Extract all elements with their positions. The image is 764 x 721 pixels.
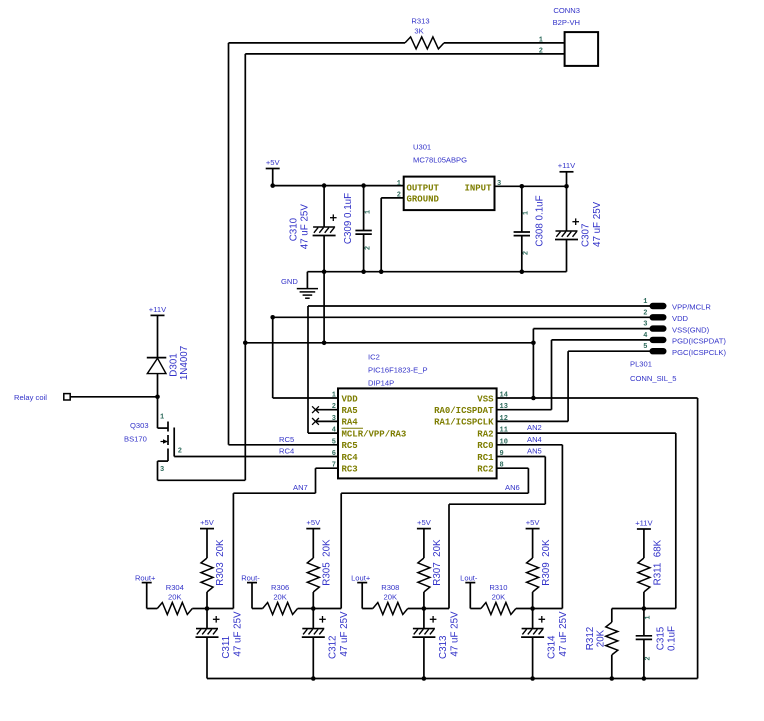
wire PGC to PL301 pin5 (568, 350, 650, 352)
svg-text:R303 20K: R303 20K (215, 539, 226, 586)
wire AN2 arm to R311/R312 (612, 608, 676, 610)
resistor R307 20K (418, 558, 430, 592)
wire Q303 drain lead (158, 427, 169, 429)
svg-text:47 uF 25V: 47 uF 25V (339, 611, 350, 657)
capacitor C314 47uF 25V (521, 616, 545, 637)
wire CONN3 pin2 down (GND net) (244, 54, 246, 343)
svg-text:AN5: AN5 (527, 447, 542, 456)
svg-text:4: 4 (643, 332, 647, 340)
svg-text:BS170: BS170 (124, 435, 147, 444)
pad PL301 pin 3 (650, 326, 666, 331)
terminal Relay coil (64, 394, 70, 400)
wire R304 to junction (192, 608, 207, 610)
svg-text:2: 2 (643, 309, 647, 317)
wire U301 GROUND down (380, 198, 382, 272)
wire R309 to junction (532, 592, 534, 609)
wire C309 top stub (363, 186, 365, 231)
svg-text:RC5: RC5 (279, 435, 294, 444)
wire R303 to junction (206, 592, 208, 609)
svg-text:Lout+: Lout+ (351, 573, 371, 582)
capacitor C313 47uF 25V (412, 616, 436, 637)
svg-text:0.1uF: 0.1uF (666, 626, 677, 651)
junction C310 top (322, 183, 327, 188)
power +5V channel Lout+ (417, 528, 431, 530)
wire +5V to R303 (206, 529, 208, 558)
pad PL301 pin 5 (650, 349, 666, 354)
wire +5V to R305 (312, 529, 314, 558)
wire +5V to R309 (532, 529, 534, 558)
svg-text:1: 1 (160, 414, 164, 422)
wire relay coil to node (70, 396, 157, 398)
wire MCLR vertical (307, 306, 309, 433)
svg-text:RA5: RA5 (342, 406, 358, 416)
wire AN6 to channel 2 junction (313, 608, 341, 610)
pad PL301 pin 4 (650, 337, 666, 342)
wire R307 to junction (423, 592, 425, 609)
svg-text:Q303: Q303 (130, 421, 149, 430)
wire junction to C312 (312, 609, 314, 629)
wire AN5 to channel 3 junction (424, 608, 449, 610)
wire AN2 vertical (675, 433, 677, 608)
wire VPP/MCLR to PL301 pin1 (308, 305, 650, 307)
svg-text:IC2: IC2 (368, 353, 380, 362)
svg-text:RA0/ICSPDAT: RA0/ICSPDAT (434, 406, 494, 416)
junction GND stub (322, 341, 327, 346)
power +11V channel 5 (637, 528, 651, 530)
junction C309 bottom (361, 269, 366, 274)
svg-text:DIP14P: DIP14P (368, 379, 394, 388)
svg-text:MCLR/VPP/RA3: MCLR/VPP/RA3 (342, 429, 407, 439)
terminal Lout+ (357, 582, 367, 584)
svg-text:+5V: +5V (266, 158, 281, 167)
resistor R309 20K (527, 558, 539, 592)
svg-text:C312: C312 (327, 636, 338, 659)
wire MCLR to IC2 pin4 (308, 432, 338, 434)
svg-text:RC4: RC4 (342, 453, 359, 463)
wire IC2 pin13 to PGD (497, 409, 552, 411)
junction bottom rail x=611.8 (610, 676, 615, 681)
terminal Rout- (247, 582, 257, 584)
terminal Lout- (465, 582, 475, 584)
wire RC4 gate to IC2 pin6 (174, 456, 338, 458)
capacitor C312 47uF 25V (302, 616, 326, 637)
wire Rout- to R306 (252, 608, 263, 610)
wire D301 anode to Q303 drain (157, 374, 159, 429)
wire AN7 down from pin7 (315, 468, 317, 493)
wire R312 to bottom rail (611, 655, 613, 679)
svg-text:VPP/MCLR: VPP/MCLR (672, 303, 711, 312)
junction C309 top (361, 183, 366, 188)
wire AN4 from IC2 pin10 (497, 444, 563, 446)
svg-text:14: 14 (500, 392, 508, 400)
svg-text:2: 2 (644, 656, 652, 660)
svg-text:+5V: +5V (306, 518, 321, 527)
svg-text:INPUT: INPUT (464, 184, 492, 194)
wire C311 to bottom rail (206, 637, 208, 678)
svg-text:C315: C315 (656, 626, 667, 650)
junction GND at CONN3 pin2 net (243, 341, 248, 346)
overline MCLR (342, 427, 364, 429)
svg-text:R304: R304 (166, 583, 184, 592)
svg-text:RC0: RC0 (477, 441, 493, 451)
svg-text:RC4: RC4 (279, 447, 294, 456)
wire junction to C311 (206, 609, 208, 629)
svg-text:C309 0.1uF: C309 0.1uF (343, 193, 354, 244)
wire VSS vertical (532, 329, 534, 398)
wire AN5 horizontal (449, 503, 545, 505)
svg-text:PIC16F1823-E_P: PIC16F1823-E_P (368, 366, 428, 375)
power +5V regulator output (266, 168, 280, 170)
junction +11V INPUT (564, 184, 569, 189)
svg-text:RC3: RC3 (342, 465, 358, 475)
svg-text:47 uF 25V: 47 uF 25V (449, 611, 460, 657)
wire IC2 pin7 stub (316, 467, 339, 469)
wire VDD to IC2 pin1 (273, 397, 338, 399)
wire R306 to junction (298, 608, 314, 610)
wire VSS down to bottom rail (697, 398, 699, 679)
wire IC2 pin12 to PGC (497, 420, 568, 422)
power +11V input (560, 171, 574, 173)
wire +5V to R307 (423, 529, 425, 558)
svg-text:C310: C310 (289, 217, 300, 241)
wire C307 bottom stub (566, 240, 568, 272)
svg-text:RC2: RC2 (477, 465, 493, 475)
capacitor C310 47uF 25V (313, 214, 337, 235)
wire Rout+ to R304 (147, 608, 158, 610)
wire VDD to PL301 pin2 (273, 316, 650, 318)
resistor R312 20K (606, 622, 618, 655)
svg-text:+5V: +5V (417, 518, 432, 527)
wire channel 1 junction to AN7 (207, 608, 233, 610)
svg-text:3: 3 (160, 466, 164, 474)
svg-text:R309 20K: R309 20K (541, 539, 552, 586)
svg-text:Rout-: Rout- (241, 573, 260, 582)
power +5V channel Rout- (306, 528, 320, 530)
wire AN6 vertical lower (340, 493, 342, 608)
resistor R305 20K (307, 558, 319, 592)
wire C309 bottom stub (363, 234, 365, 272)
wire VDD vertical (272, 317, 274, 398)
wire CONN3 pin1 to RC5 vertical (228, 43, 230, 445)
svg-text:B2P-VH: B2P-VH (553, 18, 580, 27)
svg-text:C313: C313 (438, 635, 449, 659)
svg-text:PL301: PL301 (630, 360, 652, 369)
svg-text:3: 3 (643, 321, 647, 329)
svg-text:GND: GND (281, 277, 298, 286)
svg-text:1: 1 (397, 180, 401, 188)
svg-text:1: 1 (643, 298, 647, 306)
junction bottom rail x=643.9 (642, 676, 647, 681)
svg-text:AN6: AN6 (505, 483, 520, 492)
wire GND symbol stem (306, 272, 308, 289)
no-connect X pin2 (312, 406, 319, 413)
svg-text:3K: 3K (414, 27, 423, 36)
wire Q303 source to GND net (158, 479, 246, 481)
svg-text:47 uF 25V: 47 uF 25V (558, 611, 569, 657)
power +5V channel Lout- (526, 528, 540, 530)
pad PL301 pin 2 (650, 315, 666, 320)
svg-text:13: 13 (500, 403, 508, 411)
wire AN7 vertical to channel 1 (232, 493, 234, 608)
wire Q303 source lead (158, 460, 169, 462)
wire AN2 from IC2 pin11 (497, 432, 676, 434)
junction VDD tap (270, 315, 275, 320)
wire +11V to R311 (643, 529, 645, 558)
svg-text:RA2: RA2 (477, 429, 493, 439)
svg-text:1: 1 (539, 37, 543, 45)
svg-text:12: 12 (500, 415, 508, 423)
wire C310 top stub (323, 186, 325, 227)
wire +5V rail to U301 OUTPUT (273, 185, 404, 187)
svg-text:1: 1 (332, 392, 336, 400)
wire +11V stem to C307 (566, 172, 568, 231)
wire IC2 pin2 stub (316, 409, 339, 411)
svg-text:R308: R308 (381, 583, 399, 592)
svg-text:5: 5 (643, 343, 647, 351)
resistor R308 20K (373, 603, 408, 615)
pad PL301 pin 1 (650, 303, 666, 308)
terminal Rout+ (142, 582, 152, 584)
svg-text:1: 1 (364, 210, 372, 214)
svg-text:20K: 20K (492, 593, 506, 602)
junction C308 top (520, 184, 525, 189)
junction node Rout- (311, 606, 316, 611)
wire R310 to junction (516, 608, 533, 610)
svg-text:2: 2 (539, 48, 543, 56)
wire AN6 vertical upper (527, 468, 529, 493)
svg-text:RC5: RC5 (342, 441, 358, 451)
junction bottom rail x=313.3 (311, 676, 316, 681)
wire Rout+ down (146, 583, 148, 609)
capacitor C311 47uF 25V (196, 616, 220, 637)
wire AN5 vertical upper (544, 457, 546, 505)
wire Lout- down (469, 583, 471, 609)
wire IC2 pin3 stub (316, 420, 339, 422)
wire AN5 vertical lower (448, 504, 450, 608)
wire Rout- down (251, 583, 253, 609)
svg-text:MC78L05ABPG: MC78L05ABPG (413, 156, 467, 165)
diode D301 1N4007 (147, 357, 167, 359)
wire CONN3 pin2 (245, 53, 564, 55)
wire PGD to PL301 pin4 (552, 339, 651, 341)
wire C314 to bottom rail (532, 637, 534, 678)
svg-text:R305 20K: R305 20K (321, 539, 332, 586)
svg-text:20K: 20K (384, 593, 398, 602)
svg-text:Lout-: Lout- (460, 573, 478, 582)
svg-text:C314: C314 (547, 635, 558, 659)
wire +11V to D301 cathode (157, 315, 159, 357)
capacitor C307 47uF 25V (555, 218, 579, 239)
wire C313 to bottom rail (423, 637, 425, 678)
svg-text:+5V: +5V (526, 518, 541, 527)
resistor R303 20K (201, 558, 213, 592)
wire R313 to CONN3 pin1 (444, 42, 565, 44)
junction node Lout- (530, 606, 535, 611)
wire Lout+ down (361, 583, 363, 609)
wire junction to R312 (611, 609, 613, 623)
svg-text:+5V: +5V (200, 518, 215, 527)
wire junction to C315 (643, 609, 645, 636)
wire +5V stem (272, 169, 274, 186)
svg-text:47 uF 25V: 47 uF 25V (300, 204, 311, 250)
wire IC2 pin14 VSS to right (497, 397, 698, 399)
wire C315 to bottom rail (643, 639, 645, 678)
wire AN7 horizontal (233, 492, 315, 494)
svg-text:20K: 20K (168, 593, 182, 602)
resistor R306 20K (263, 603, 298, 615)
resistor R310 20K (481, 603, 516, 615)
wire AN4 vertical (561, 445, 563, 609)
junction +5V rail (270, 183, 275, 188)
wire R305 to junction (312, 592, 314, 609)
svg-text:Rout+: Rout+ (135, 573, 156, 582)
wire RC5 to IC2 pin5 (229, 444, 339, 446)
svg-text:C308 0.1uF: C308 0.1uF (535, 195, 546, 246)
wire junction to C313 (423, 609, 425, 629)
svg-text:R307 20K: R307 20K (432, 539, 443, 586)
svg-text:RA4: RA4 (342, 418, 359, 428)
svg-text:AN2: AN2 (527, 423, 542, 432)
svg-text:R313: R313 (411, 17, 429, 26)
connector CONN3 B2P-VH (565, 32, 599, 66)
wire C308 bottom stub (521, 236, 523, 272)
svg-text:U301: U301 (413, 143, 431, 152)
svg-text:VSS(GND): VSS(GND) (672, 325, 710, 334)
op-amp/microcontroller IC2 PIC16F1823-E_P (338, 388, 497, 478)
svg-text:VDD: VDD (672, 314, 689, 323)
no-connect X pin3 (312, 418, 319, 425)
svg-text:OUTPUT: OUTPUT (407, 184, 440, 194)
junction C308 bottom (520, 269, 525, 274)
wire VSS to PL301 pin3 (533, 328, 650, 330)
svg-text:R310: R310 (489, 583, 507, 592)
svg-text:+11V: +11V (558, 161, 576, 170)
svg-text:C307: C307 (581, 224, 592, 247)
svg-text:GROUND: GROUND (407, 194, 440, 204)
wire R311 to junction (643, 592, 645, 609)
junction node Lout+ (422, 606, 427, 611)
svg-text:CONN3: CONN3 (553, 6, 580, 15)
wire R308 to junction (408, 608, 424, 610)
wire GND stub down (323, 272, 325, 343)
svg-text:1N4007: 1N4007 (179, 346, 190, 380)
wire Lout- to R310 (470, 608, 481, 610)
resistor R313 (405, 37, 444, 49)
wire C310 bottom stub (323, 236, 325, 272)
resistor R311 68K (638, 558, 650, 592)
junction node AN2 (642, 606, 647, 611)
resistor R304 20K (157, 603, 192, 615)
junction bottom rail x=423.9 (422, 676, 427, 681)
svg-text:VDD: VDD (342, 394, 359, 404)
svg-text:CONN_SIL_5: CONN_SIL_5 (630, 374, 676, 383)
wire U301 INPUT to +11V (495, 185, 567, 187)
svg-text:AN4: AN4 (527, 435, 542, 444)
power +5V channel Rout+ (200, 528, 214, 530)
wire C312 to bottom rail (312, 637, 314, 678)
wire PGC vertical (567, 351, 569, 421)
junction C310 bottom (322, 269, 327, 274)
junction relay coil node (155, 395, 160, 400)
wire GND net horizontal (245, 342, 533, 344)
wire U301 GROUND pin (381, 197, 404, 199)
svg-text:47 uF 25V: 47 uF 25V (233, 611, 244, 657)
svg-text:RC1: RC1 (477, 453, 494, 463)
wire PGD vertical (551, 340, 553, 410)
wire C308 top stub (521, 186, 523, 232)
wire Lout+ to R308 (362, 608, 373, 610)
wire CONN3 pin1 left segment (229, 42, 406, 44)
svg-text:R306: R306 (271, 583, 289, 592)
svg-text:2: 2 (364, 246, 372, 250)
wire AN5 from IC2 pin9 (497, 456, 546, 458)
wire GND net down to Q303 source (244, 343, 246, 481)
svg-text:2: 2 (178, 448, 182, 456)
svg-text:Relay coil: Relay coil (14, 393, 47, 402)
svg-text:20K: 20K (273, 593, 287, 602)
junction node Rout+ (205, 606, 210, 611)
svg-text:+11V: +11V (149, 305, 167, 314)
svg-text:PGD(ICSPDAT): PGD(ICSPDAT) (672, 337, 726, 346)
svg-text:C311: C311 (221, 636, 232, 659)
svg-text:1: 1 (644, 615, 652, 619)
svg-text:R311 68K: R311 68K (653, 539, 664, 585)
capacitor C309 0.1uF (355, 231, 371, 235)
capacitor C308 0.1uF (514, 232, 530, 236)
wire bottom ground rail (207, 678, 698, 680)
power +11V diode (151, 314, 165, 316)
junction GND to VSS vertical (531, 341, 536, 346)
svg-text:VSS: VSS (477, 394, 494, 404)
wire AN4 to channel 4 junction (533, 608, 563, 610)
svg-text:1: 1 (523, 211, 531, 215)
svg-text:4: 4 (332, 427, 336, 435)
wire AN6 horizontal (341, 492, 528, 494)
svg-text:RA1/ICSPCLK: RA1/ICSPCLK (434, 418, 494, 428)
wire AN6 from IC2 pin8 (497, 467, 529, 469)
svg-text:20K: 20K (595, 629, 606, 647)
svg-text:47 uF 25V: 47 uF 25V (592, 201, 603, 247)
regulator U301 MC78L05ABPG (404, 177, 495, 211)
junction bottom rail x=532.6 (530, 676, 535, 681)
svg-text:2: 2 (523, 251, 531, 255)
capacitor C315 0.1uF (636, 636, 652, 640)
svg-text:+11V: +11V (635, 518, 653, 527)
junction VSS at IC2 pin14 wire (531, 396, 536, 401)
wire junction to C314 (532, 609, 534, 629)
wire ground rail of caps (307, 271, 566, 273)
svg-text:R312: R312 (585, 627, 596, 650)
svg-text:PGC(ICSPCLK): PGC(ICSPCLK) (672, 348, 726, 357)
svg-text:AN7: AN7 (293, 483, 308, 492)
wire Q303 source down (157, 461, 159, 480)
junction U301 GROUND rail (379, 269, 384, 274)
